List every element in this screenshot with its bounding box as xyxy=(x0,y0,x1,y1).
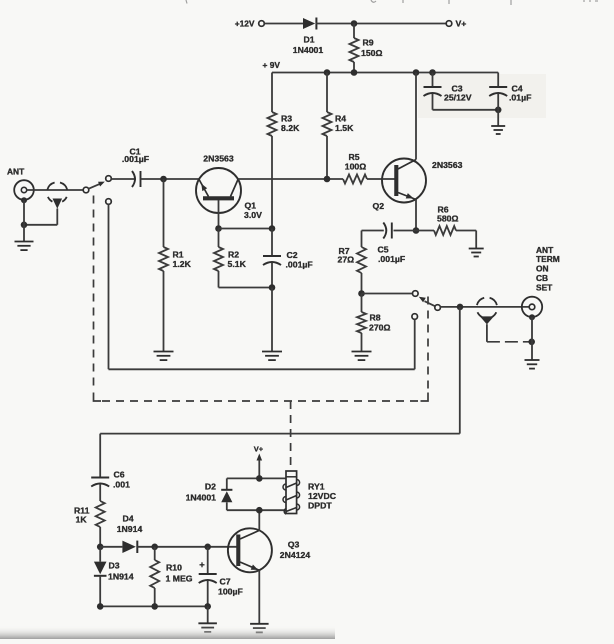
svg-text:+ 9V: + 9V xyxy=(263,60,281,70)
svg-text:1.2K: 1.2K xyxy=(173,259,192,269)
switch S1b lever xyxy=(425,301,436,306)
capacitor C1 .001uF xyxy=(132,171,135,187)
linkage relay dashed xyxy=(290,401,292,471)
resistor R10 1 MEG xyxy=(154,547,156,560)
svg-text:.001: .001 xyxy=(113,480,130,490)
wire relay feed rail xyxy=(100,433,460,435)
wire bottom rail xyxy=(100,605,208,607)
svg-text:100µF: 100µF xyxy=(218,587,243,597)
svg-text:ANT: ANT xyxy=(7,167,25,177)
ground C2 xyxy=(262,351,282,353)
wire bypass rail xyxy=(109,368,415,370)
diode D1 1N4001 xyxy=(303,18,315,29)
ground R8 xyxy=(352,351,372,353)
wire +12V terminal to D1 xyxy=(264,23,303,25)
capacitor C4 .01uF xyxy=(497,73,499,88)
wire coil top xyxy=(227,477,286,479)
svg-text:3.0V: 3.0V xyxy=(244,210,262,220)
junction C2 bottom xyxy=(269,284,276,291)
svg-text:DPDT: DPDT xyxy=(308,501,332,511)
svg-text:Q1: Q1 xyxy=(245,201,257,211)
wire base node to C2 xyxy=(219,228,273,230)
junction R7/R8 output node xyxy=(358,290,365,297)
svg-text:.001µF: .001µF xyxy=(286,260,313,270)
svg-text:SET: SET xyxy=(536,282,553,292)
svg-text:D3: D3 xyxy=(109,561,120,571)
svg-text:5.1K: 5.1K xyxy=(228,259,247,269)
svg-text:8.2K: 8.2K xyxy=(281,123,300,133)
switch S1a throw to preamp xyxy=(106,176,112,182)
capacitor C2 .001uF xyxy=(271,229,273,257)
junction R10 bottom xyxy=(151,603,158,610)
jack P2 to CB set xyxy=(477,298,497,317)
junction ANT shell xyxy=(21,222,28,229)
svg-text:V+: V+ xyxy=(254,445,264,454)
junction Q3 collector / coil bottom xyxy=(256,507,263,514)
svg-text:.01µF: .01µF xyxy=(509,93,531,103)
junction R11/D4/D3 xyxy=(97,544,104,551)
svg-text:R5: R5 xyxy=(348,152,359,162)
linkage corner left xyxy=(94,393,102,402)
resistor R11 1K xyxy=(96,501,105,527)
diode D3 1N914 xyxy=(99,547,101,562)
switch S1a throw to bypass xyxy=(106,199,112,205)
wire Q1 base down xyxy=(218,200,220,229)
wire Q1 collector to R5 xyxy=(238,178,343,180)
wire plug sleeve to ANT shell xyxy=(24,224,57,226)
svg-text:R1: R1 xyxy=(173,250,184,260)
resistor R4 1.5K xyxy=(326,73,328,113)
wire jack sleeve (flex) xyxy=(487,341,529,343)
svg-text:C7: C7 xyxy=(220,577,231,587)
resistor R2 5.1K xyxy=(218,229,220,248)
plug P1 (ant jack) xyxy=(47,183,67,202)
svg-text:2N3563: 2N3563 xyxy=(432,160,463,170)
resistor R8 270 ohm xyxy=(361,294,363,313)
wire D1 to V+ terminal xyxy=(316,23,447,25)
junction Q1 base node xyxy=(215,225,222,232)
junction C3 top xyxy=(429,69,436,76)
junction V+ / coil top xyxy=(256,475,263,482)
diode D2 1N4001 xyxy=(226,478,228,489)
wire C3 bottom to C4 bottom xyxy=(433,109,499,111)
resistor R1 1.2K xyxy=(163,179,165,247)
svg-text:D4: D4 xyxy=(122,514,133,524)
capacitor C6 .001 xyxy=(99,434,101,478)
wire Q3 emitter down xyxy=(258,570,260,623)
svg-text:RY1: RY1 xyxy=(308,482,325,492)
junction C3/C4 bottom xyxy=(495,107,502,114)
junction CB shell xyxy=(528,339,535,346)
capacitor C3 25uF/12V xyxy=(432,73,434,88)
capacitor C7 100uF xyxy=(207,547,209,574)
wire Q3 collector up xyxy=(258,510,260,530)
wire S1b common to CB jack xyxy=(440,306,529,308)
svg-text:1N914: 1N914 xyxy=(117,524,143,534)
switch S1b throw from preamp xyxy=(413,291,419,297)
svg-text:1K: 1K xyxy=(76,515,88,525)
ground R1 xyxy=(154,351,174,353)
wire CB shell down xyxy=(531,317,533,360)
svg-text:R4: R4 xyxy=(335,114,346,124)
linkage S1a dashed xyxy=(93,196,95,392)
wire Q2 emitter down xyxy=(415,200,417,231)
wire ANT pin to plug P1 xyxy=(27,189,84,191)
svg-text:1N4001: 1N4001 xyxy=(186,493,217,503)
wire output node to S1b xyxy=(362,293,413,295)
resistor R9 150 ohm xyxy=(353,24,355,39)
svg-text:.001µF: .001µF xyxy=(378,254,405,264)
ground ANT xyxy=(15,241,34,243)
switch S1b throw to bypass xyxy=(412,314,418,320)
linkage corner right xyxy=(421,393,429,402)
svg-text:C5: C5 xyxy=(378,245,389,255)
junction R4 top xyxy=(324,69,331,76)
connector J2 CB set xyxy=(522,297,542,317)
svg-text:.001µF: .001µF xyxy=(122,154,149,164)
svg-text:2N3563: 2N3563 xyxy=(203,154,234,164)
ground Q3 emitter xyxy=(250,623,269,625)
capacitor C5 .001uF xyxy=(394,230,417,232)
svg-text:R2: R2 xyxy=(228,250,239,260)
transistor Q2 2N3563 xyxy=(382,159,426,203)
terminal V+ xyxy=(446,21,452,27)
wire R2 bottom to C2 bottom xyxy=(219,287,273,289)
svg-text:+12V: +12V xyxy=(235,19,255,29)
svg-text:R9: R9 xyxy=(363,38,374,48)
junction D1/R9/V+ xyxy=(351,20,358,27)
wire C2 to ground xyxy=(271,288,273,352)
resistor R7 27 ohm xyxy=(361,231,363,248)
svg-text:270Ω: 270Ω xyxy=(369,323,390,333)
svg-text:2N4124: 2N4124 xyxy=(280,550,311,560)
junction R10 top xyxy=(151,544,158,551)
junction R3/C2 node xyxy=(269,225,276,232)
ground bottom rail xyxy=(207,606,209,623)
svg-text:1N914: 1N914 xyxy=(108,572,134,582)
wire bypass down from S1a xyxy=(108,204,110,369)
svg-text:Q2: Q2 xyxy=(373,201,385,211)
wire bypass up to S1b xyxy=(414,319,416,369)
svg-text:1 MEG: 1 MEG xyxy=(166,574,193,584)
svg-text:100Ω: 100Ω xyxy=(345,162,366,172)
ground R6 xyxy=(469,248,484,250)
svg-text:V+: V+ xyxy=(456,19,467,29)
svg-text:150Ω: 150Ω xyxy=(361,48,382,58)
svg-text:12VDC: 12VDC xyxy=(308,491,337,501)
svg-text:27Ω: 27Ω xyxy=(338,255,355,265)
resistor R6 580 ohm xyxy=(416,230,434,232)
junction C7 bottom xyxy=(204,603,211,610)
switch S1a lever xyxy=(88,183,101,189)
junction ANT shell stub xyxy=(21,197,27,203)
ground CB jack xyxy=(525,359,540,361)
wire C1 to Q1 emitter xyxy=(141,178,199,180)
svg-text:R10: R10 xyxy=(166,563,182,573)
junction R4 bottom xyxy=(324,176,331,183)
resistor R5 100 ohm xyxy=(343,175,367,184)
svg-text:R8: R8 xyxy=(370,313,381,323)
svg-text:C6: C6 xyxy=(114,470,125,480)
svg-text:R3: R3 xyxy=(281,114,292,124)
junction relay-coil feed node xyxy=(457,304,464,311)
wire Q2 collector to 9V rail xyxy=(415,73,417,160)
junction C7 top xyxy=(204,544,211,551)
diode D4 1N914 xyxy=(100,546,122,548)
switch S1a common xyxy=(83,187,89,193)
wire ANT shell down xyxy=(23,200,25,242)
svg-text:D2: D2 xyxy=(205,482,216,492)
wire 9V rail xyxy=(272,72,498,74)
junction R9 bottom xyxy=(351,69,358,76)
linkage bottom dashed xyxy=(102,400,420,402)
junction D3 bottom xyxy=(97,603,104,610)
svg-text:C2: C2 xyxy=(287,250,298,260)
relay RY1 12VDC DPDT xyxy=(286,471,297,514)
svg-text:D1: D1 xyxy=(303,35,314,45)
svg-text:1N4001: 1N4001 xyxy=(293,45,324,55)
switch S1b common xyxy=(435,305,441,311)
svg-text:Q3: Q3 xyxy=(288,540,300,550)
junction Q2 collector xyxy=(413,69,420,76)
ground C3/C4 xyxy=(497,110,499,126)
svg-text:1.5K: 1.5K xyxy=(335,123,354,133)
junction Q2 emitter node xyxy=(413,227,420,234)
svg-text:25/12V: 25/12V xyxy=(444,93,472,103)
wire relay feed down xyxy=(459,307,461,434)
wire D4 to Q3 base xyxy=(137,546,236,548)
resistor R3 8.2K xyxy=(271,73,273,113)
wire S1a to C1 xyxy=(111,178,136,180)
transistor Q3 2N4124 xyxy=(228,528,272,572)
junction R1 top xyxy=(160,176,167,183)
wire coil bottom xyxy=(227,509,286,511)
linkage S1b dashed xyxy=(427,297,429,392)
junction CB shell stub xyxy=(529,314,535,320)
svg-text:580Ω: 580Ω xyxy=(437,214,458,224)
transistor Q1 2N3563 xyxy=(196,168,241,213)
